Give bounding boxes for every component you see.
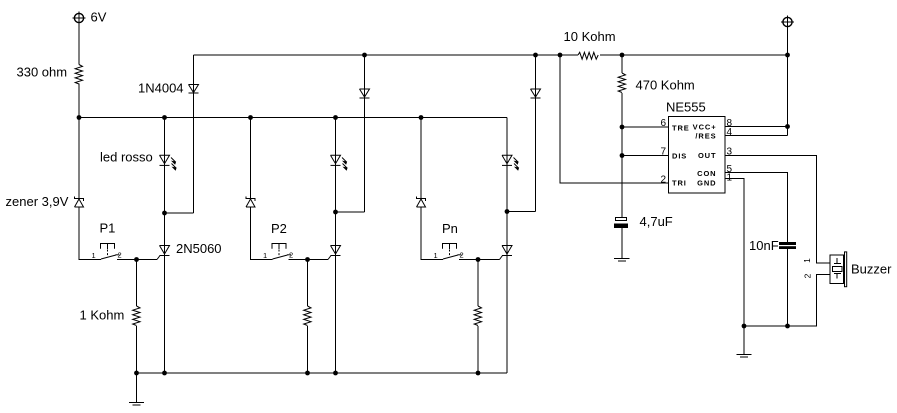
svg-text:DIS: DIS bbox=[672, 152, 687, 161]
pushbutton P1 bbox=[101, 244, 120, 260]
node pin8-vcc bbox=[785, 124, 790, 129]
svg-text:zener 3,9V: zener 3,9V bbox=[6, 194, 69, 209]
svg-text:6: 6 bbox=[661, 118, 667, 129]
node top bus diode3 bbox=[533, 53, 538, 58]
wire bus to led3 bbox=[506, 118, 508, 374]
SCR Q3 bbox=[500, 246, 513, 260]
node bottom SCR1 bbox=[162, 371, 167, 376]
svg-text:1 Kohm: 1 Kohm bbox=[80, 308, 125, 323]
capacitor C1 4,7uF bbox=[614, 218, 628, 229]
wire bus to led2 bbox=[335, 118, 337, 374]
resistor 1 Kohm stage2 bbox=[304, 306, 311, 326]
wire trigger drop bbox=[560, 55, 669, 183]
wire diode1 lower bbox=[193, 55, 195, 213]
node top bus 470K bbox=[620, 53, 625, 58]
svg-text:Pn: Pn bbox=[442, 221, 458, 236]
svg-text:330 ohm: 330 ohm bbox=[17, 65, 68, 80]
svg-text:1: 1 bbox=[802, 258, 812, 263]
power terminal +6V bbox=[73, 12, 86, 25]
node bus-zener2 bbox=[248, 115, 253, 120]
wire pin7 bbox=[622, 155, 669, 157]
node top bus diode2 bbox=[362, 53, 367, 58]
node bottom R3 bbox=[476, 371, 481, 376]
zener D1 3,9V bbox=[75, 197, 84, 208]
wire zener2 to button bbox=[251, 207, 273, 260]
node buttonN-R bbox=[476, 257, 481, 262]
pushbutton Pn bbox=[443, 244, 462, 260]
diode D1 1N4004 bbox=[189, 85, 199, 94]
svg-text:2: 2 bbox=[118, 251, 122, 260]
power terminal right bbox=[781, 16, 794, 29]
wire zener3 to button bbox=[421, 207, 443, 260]
zener D2 bbox=[246, 197, 255, 208]
top bus right segment bbox=[600, 54, 788, 56]
node button2-R bbox=[305, 257, 310, 262]
SCR Q1 2N5060 bbox=[157, 246, 170, 260]
wire button2 to node bbox=[289, 259, 329, 261]
svg-text:VCC+: VCC+ bbox=[693, 123, 717, 132]
svg-text:OUT: OUT bbox=[698, 151, 717, 160]
LED DL3 bbox=[502, 155, 519, 169]
svg-text:1: 1 bbox=[434, 251, 438, 260]
SCR Q2 bbox=[328, 246, 341, 260]
bottom right bus bbox=[744, 275, 830, 327]
svg-text:10 Kohm: 10 Kohm bbox=[564, 29, 616, 44]
svg-text:470 Kohm: 470 Kohm bbox=[636, 78, 695, 93]
svg-text:2N5060: 2N5060 bbox=[176, 241, 222, 256]
node gnd bus left bbox=[742, 324, 747, 329]
node led3-diode3 bbox=[505, 209, 510, 214]
wire pin8 bbox=[725, 126, 788, 128]
wire power to resistor R1 bbox=[78, 25, 80, 65]
node led2-diode2 bbox=[333, 210, 338, 215]
node bus-led2 bbox=[333, 115, 338, 120]
wire node to resistor bbox=[307, 260, 309, 307]
wire zener3 branch upper bbox=[420, 118, 422, 199]
node gnd bus cap bbox=[785, 324, 790, 329]
wire node to diode1 bbox=[165, 212, 194, 214]
wire cap to ground bbox=[621, 228, 623, 258]
wire zener1 to button bbox=[79, 207, 101, 260]
top bus left segment bbox=[194, 54, 579, 56]
resistor R1 330 ohm bbox=[75, 65, 82, 85]
node pin6 bbox=[620, 125, 625, 130]
node bus-led1 bbox=[162, 115, 167, 120]
wire 470K to cap bbox=[621, 93, 623, 218]
node bottom SCR2 bbox=[333, 371, 338, 376]
wire buttonN to node bbox=[459, 259, 500, 261]
svg-text:2: 2 bbox=[803, 273, 813, 278]
wire resistor to bottom bus bbox=[136, 326, 138, 373]
node bottom R1 bbox=[134, 371, 139, 376]
svg-text:Buzzer: Buzzer bbox=[851, 262, 892, 277]
wire bus to led1 bbox=[164, 118, 166, 374]
wire node to diode3 bbox=[507, 211, 536, 213]
diode D2 1N4004 bbox=[360, 89, 370, 98]
node pin7 bbox=[620, 153, 625, 158]
wire resistor3 to bottom bus bbox=[477, 326, 479, 373]
op-amp U1 NE555 box bbox=[669, 117, 726, 194]
wire diode3 lower bbox=[535, 55, 537, 212]
resistor 470 Kohm bbox=[618, 73, 625, 93]
pushbutton P2 bbox=[272, 244, 291, 260]
wire pin5 CON bbox=[725, 173, 788, 243]
svg-text:4: 4 bbox=[727, 127, 733, 138]
wire ground stub left bbox=[136, 373, 138, 402]
svg-text:GND: GND bbox=[697, 179, 716, 188]
bottom bus bbox=[137, 372, 508, 374]
node top bus Vcc bbox=[785, 53, 790, 58]
svg-text:7: 7 bbox=[661, 147, 667, 158]
svg-text:led rosso: led rosso bbox=[100, 150, 153, 165]
svg-text:10nF: 10nF bbox=[749, 238, 779, 253]
ground right bbox=[736, 355, 751, 358]
node bottom R2 bbox=[305, 371, 310, 376]
diode D3 1N4004 bbox=[531, 89, 541, 98]
svg-text:6V: 6V bbox=[91, 10, 107, 25]
wire 10nF to bottom bbox=[787, 249, 789, 326]
capacitor C2 10nF bbox=[779, 242, 796, 249]
wire pin1 GND down bbox=[725, 179, 744, 327]
wire 470K top bbox=[621, 55, 623, 73]
wire diode2 lower bbox=[364, 55, 366, 212]
wire pin4 bbox=[725, 135, 788, 137]
resistor 10 Kohm bbox=[578, 52, 598, 59]
wire resistor R1 to bus bbox=[78, 84, 80, 118]
wire zener1 branch upper bbox=[78, 118, 80, 199]
wire right power drop bbox=[787, 29, 789, 136]
LED DL1 led rosso bbox=[160, 155, 177, 169]
svg-text:/RES: /RES bbox=[695, 132, 716, 141]
svg-text:1: 1 bbox=[263, 251, 267, 260]
svg-text:P2: P2 bbox=[271, 221, 287, 236]
node button1-R bbox=[134, 257, 139, 262]
wire pin3 OUT to buzzer bbox=[725, 156, 830, 264]
wire zener2 branch upper bbox=[250, 118, 252, 199]
svg-text:1: 1 bbox=[92, 251, 96, 260]
svg-text:CON: CON bbox=[697, 169, 716, 178]
node bus-zener3 bbox=[419, 115, 424, 120]
svg-text:1N4004: 1N4004 bbox=[138, 81, 184, 96]
wire node to resistor bbox=[136, 260, 138, 307]
svg-text:4,7uF: 4,7uF bbox=[640, 214, 673, 229]
ground left bbox=[129, 403, 144, 406]
node top bus trig drop bbox=[558, 53, 563, 58]
wire node to resistor bbox=[477, 260, 479, 307]
resistor 1 Kohm bbox=[133, 306, 140, 326]
buzzer BZ1 bbox=[830, 252, 847, 287]
wire pin6 bbox=[622, 126, 669, 128]
wire node to diode2 bbox=[336, 211, 365, 213]
svg-text:TRE: TRE bbox=[672, 124, 690, 133]
svg-text:P1: P1 bbox=[100, 221, 116, 236]
ground cap bbox=[614, 259, 630, 262]
svg-text:2: 2 bbox=[289, 251, 293, 260]
node bus-R1 bbox=[77, 115, 82, 120]
svg-text:TRI: TRI bbox=[672, 179, 687, 188]
bus mid horizontal bbox=[79, 117, 507, 119]
resistor 1 Kohm stage3 bbox=[474, 306, 481, 326]
svg-text:2: 2 bbox=[661, 175, 667, 186]
svg-text:NE555: NE555 bbox=[666, 100, 706, 115]
wire ground stub right bbox=[743, 326, 745, 354]
LED DL2 bbox=[331, 155, 348, 169]
wire resistor2 to bottom bus bbox=[307, 326, 309, 373]
zener D3 bbox=[417, 197, 426, 208]
wire button1 to node bbox=[117, 259, 157, 261]
node led1-diode1 bbox=[162, 211, 167, 216]
svg-text:2: 2 bbox=[460, 251, 464, 260]
